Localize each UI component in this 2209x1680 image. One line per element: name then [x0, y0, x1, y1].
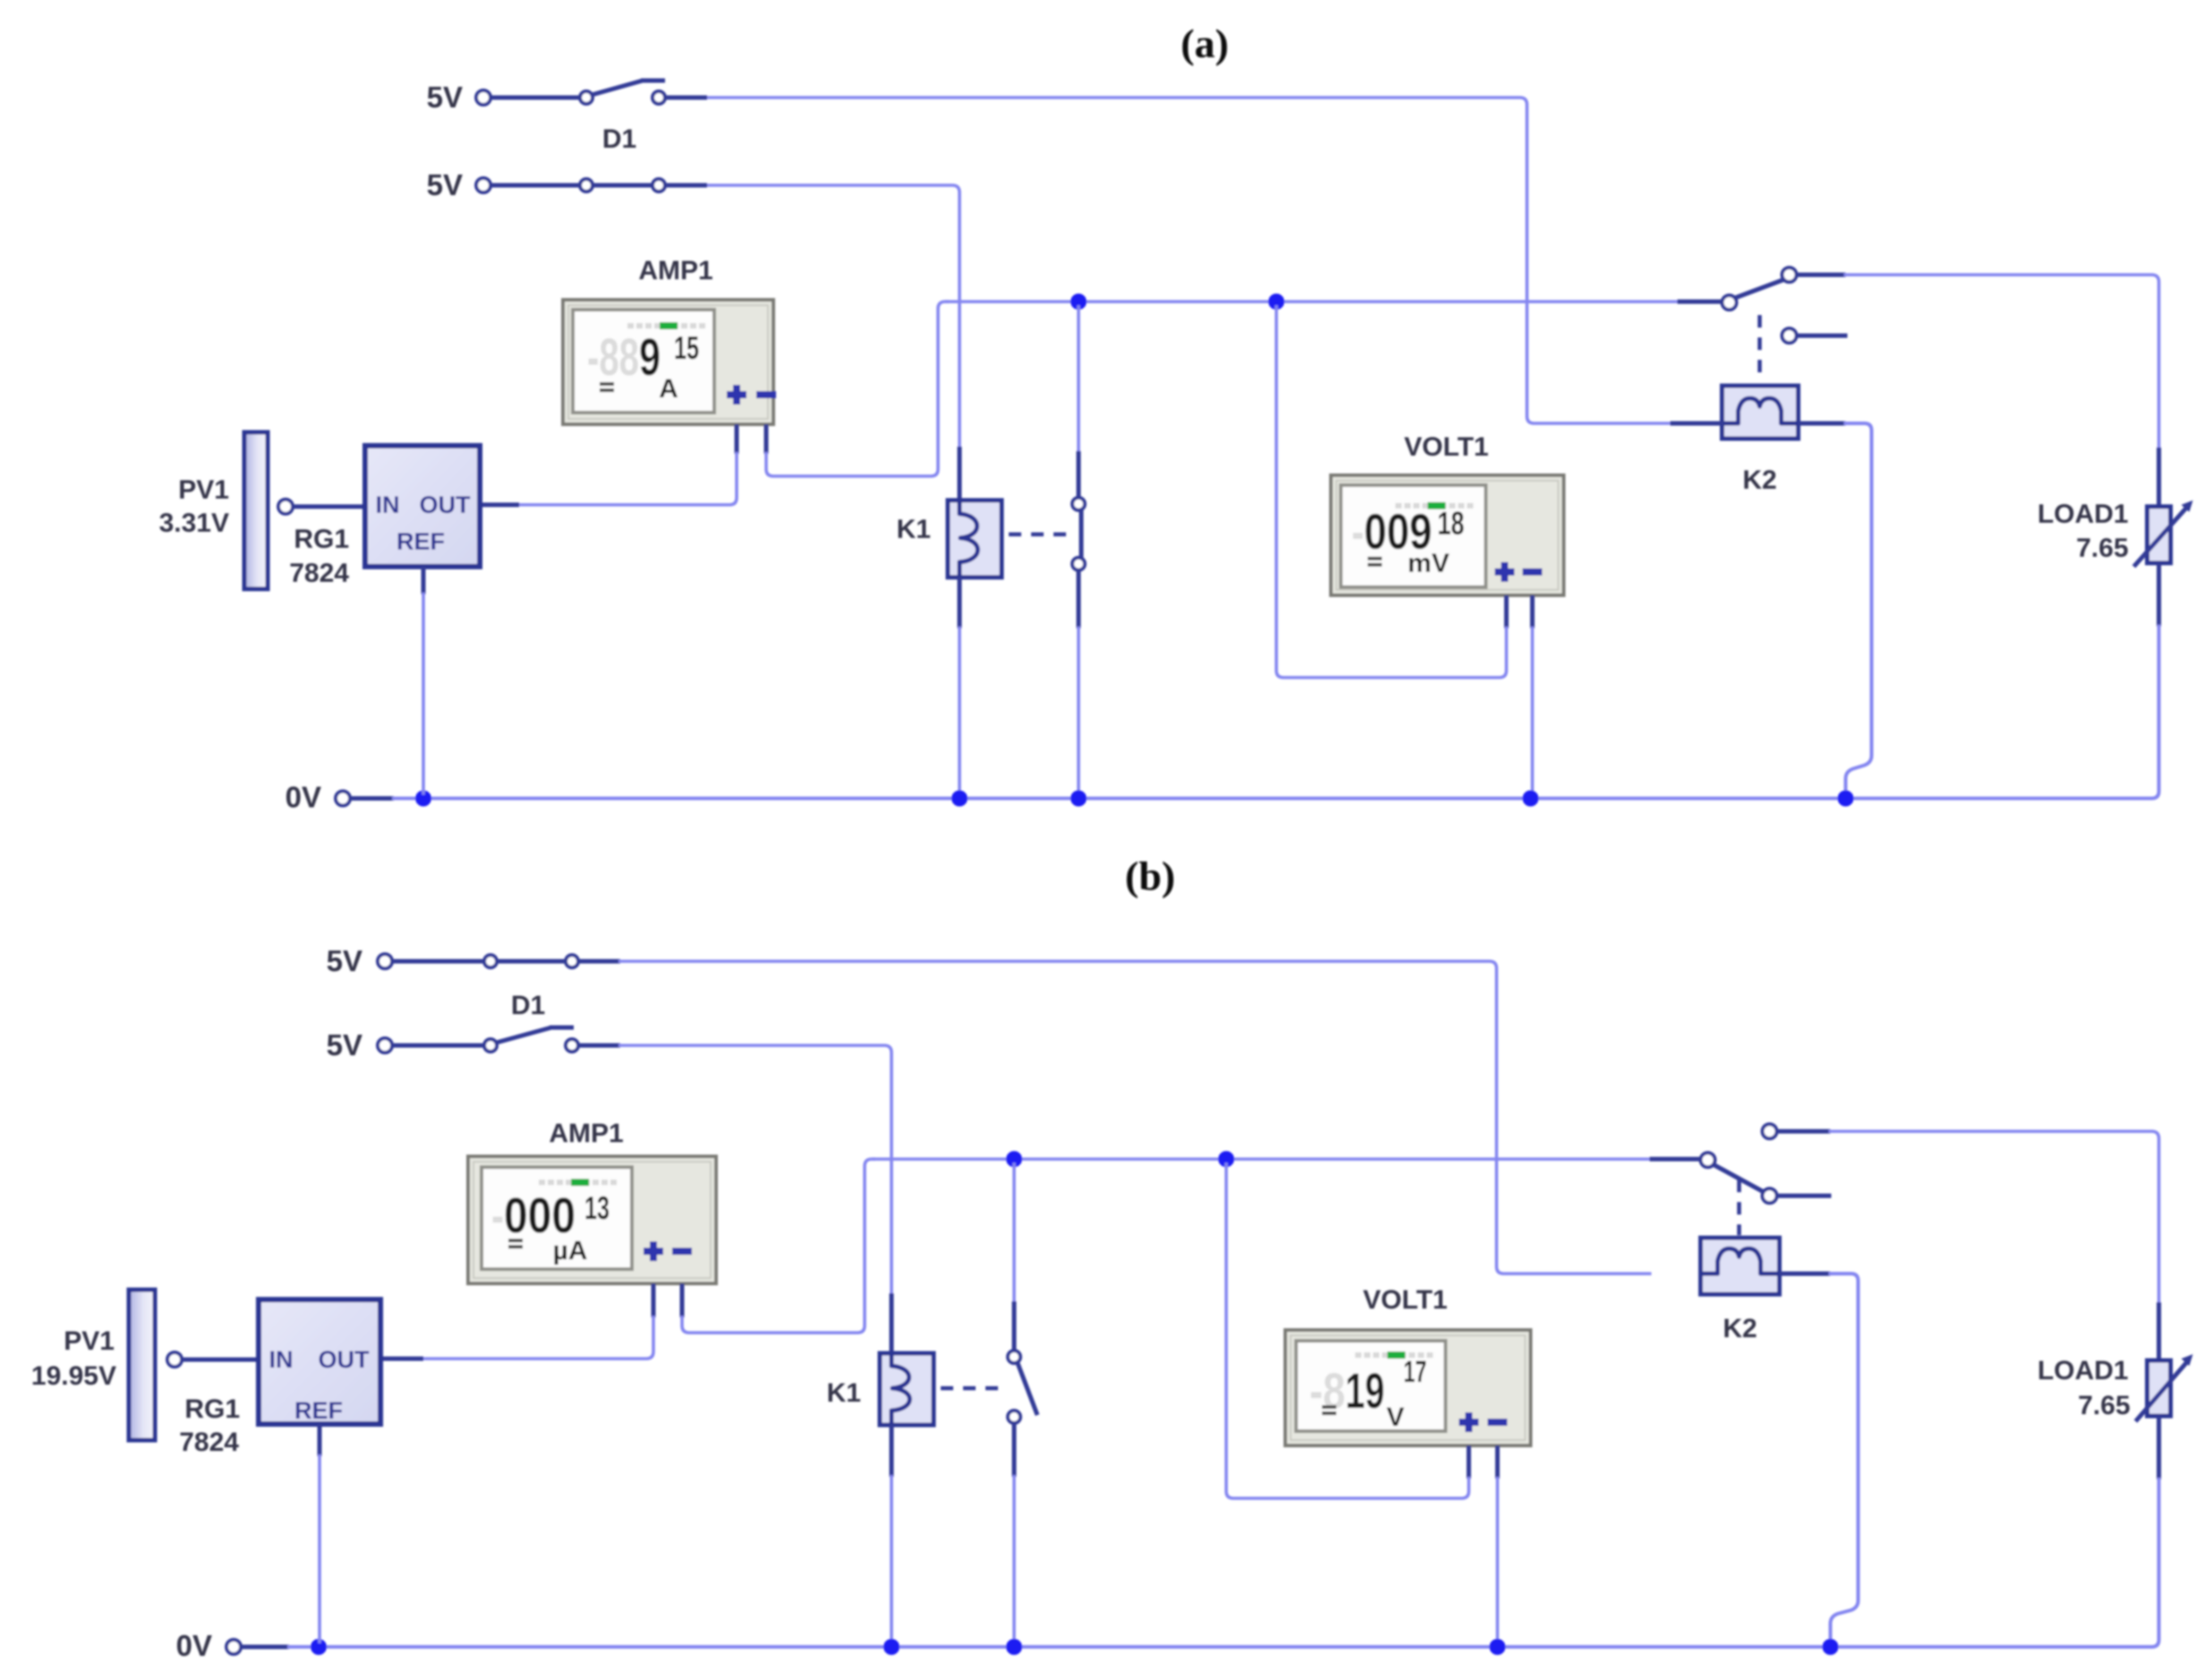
wire 5V terminal to D1 pole (a, row 2) [490, 183, 580, 188]
label K2 (b) [1723, 1314, 1757, 1343]
terminal 0V (b) [226, 1640, 241, 1654]
svg-text:mV: mV [1408, 549, 1450, 578]
svg-text:REF: REF [294, 1397, 343, 1424]
pin 0V terminal stub (a) [350, 797, 394, 801]
relay contact K2 pole (b) [1701, 1153, 1764, 1192]
wire VOLT1 plus to node (b) [1226, 1163, 1469, 1498]
label D1 (b) [511, 991, 545, 1020]
svg-text:IN: IN [269, 1346, 294, 1373]
label K1 (b) [827, 1378, 861, 1408]
wire K2 coil return to 0V rail (b) [1779, 1274, 1858, 1643]
net label 5V (a, row 1) [427, 81, 463, 114]
label RG1 (b) [184, 1394, 240, 1424]
wire D1 row1 to K2 coil (a) [665, 98, 1672, 423]
regulator RG1 (b) [259, 1300, 380, 1424]
svg-text:-819: -819 [1309, 1362, 1385, 1419]
svg-text:VOLT1: VOLT1 [1404, 432, 1488, 462]
net label 5V (b, row 1) [327, 944, 362, 977]
terminal PV1 output (b) [167, 1352, 182, 1367]
svg-text:7.65: 7.65 [2078, 1391, 2130, 1420]
junction 0V-K1contact (b) [1006, 1639, 1022, 1655]
svg-text:K2: K2 [1723, 1314, 1757, 1343]
relay coil K2 (b) [1701, 1238, 1779, 1294]
node wire (b) K1/VOLT1/K2 row [872, 1157, 1701, 1161]
svg-text:7824: 7824 [289, 559, 349, 588]
dashed actuator link K1 (a) [1009, 533, 1072, 537]
switch D1 contact 2 (a, closed) [580, 179, 665, 192]
svg-text:K1: K1 [897, 515, 931, 544]
wire RG1 REF to 0V rail (b) [318, 1424, 322, 1643]
svg-text:5V: 5V [327, 944, 362, 977]
0V rail wire (b) [287, 1478, 2159, 1647]
ammeter AMP1 (a) [563, 300, 776, 424]
junction node B1 (b, K1 contact top) [1006, 1151, 1022, 1167]
svg-text:3.31V: 3.31V [159, 508, 229, 538]
net label 5V (a, row 2) [427, 168, 463, 201]
pin K2 coil left (a) [1670, 422, 1724, 426]
svg-text:0V: 0V [286, 780, 321, 814]
svg-text:REF: REF [397, 528, 445, 555]
svg-text:17: 17 [1403, 1355, 1427, 1389]
relay coil K1 (b) [880, 1353, 934, 1425]
switch D1 contact 1 (b, closed) [484, 955, 578, 968]
label LOAD1 (a) [2037, 499, 2128, 529]
0V rail wire (a) [392, 625, 2159, 798]
svg-text:V: V [1386, 1403, 1404, 1432]
wire D1 row1 to K2 coil (b) [578, 961, 1651, 1274]
terminal 5V (a, row 1) [476, 90, 490, 105]
relay contact K2 pole (a) [1722, 279, 1785, 310]
pv panel PV1 (a) [244, 432, 268, 589]
junction 0V-VOLT1 (a) [1522, 790, 1539, 806]
wire PV1 to RG1 IN (a) [293, 505, 367, 509]
svg-text:7.65: 7.65 [2077, 533, 2128, 563]
caption (a) [1181, 21, 1229, 66]
switch D1 contact 1 (a, open) [580, 81, 665, 104]
relay coil K2 (a) [1722, 386, 1798, 439]
svg-text:K2: K2 [1743, 465, 1777, 495]
wire AMP1 minus to node (a) [766, 302, 949, 476]
dashed actuator link K2 (b) [1737, 1180, 1742, 1235]
wire VOLT1 plus to node (a) [1276, 305, 1506, 678]
svg-text:D1: D1 [511, 991, 545, 1020]
wire 5V terminal to D1 pole (b, row 1) [392, 959, 484, 964]
svg-text:15: 15 [674, 329, 699, 366]
junction 0V-K1coil (b) [883, 1639, 900, 1655]
relay contact K2 throw NO (a) [1782, 268, 1846, 282]
junction 0V-REF (b) [311, 1639, 327, 1655]
svg-text:AMP1: AMP1 [549, 1119, 623, 1148]
junction node A2 (a, VOLT1 plus top) [1268, 294, 1284, 310]
label PV1 (a) [178, 475, 229, 505]
value 7.65 (b) [2078, 1391, 2130, 1420]
label PV1 (b) [64, 1326, 115, 1356]
svg-text:RG1: RG1 [294, 524, 349, 554]
terminal 0V (a) [336, 791, 350, 806]
rheostat LOAD1 (a) [2134, 448, 2193, 627]
regulator RG1 (a) [365, 446, 480, 567]
wire D1 row2 to K1 coil (a) [665, 185, 960, 500]
switch D1 contact 2 (b, open) [484, 1028, 578, 1052]
wire RG1 REF to 0V rail (a) [422, 567, 426, 795]
junction 0V-K2coil (a) [1838, 790, 1854, 806]
svg-text:D1: D1 [602, 124, 636, 154]
relay contact K2 throw NC stub (b) [1762, 1189, 1831, 1203]
label AMP1 (b) [549, 1119, 623, 1148]
svg-text:5V: 5V [427, 168, 463, 201]
voltmeter VOLT1 (b) [1285, 1330, 1531, 1445]
value 19.95V (b) [31, 1361, 116, 1391]
junction 0V-VOLT1 (b) [1489, 1639, 1505, 1655]
svg-text:OUT: OUT [319, 1346, 371, 1373]
wire 5V terminal to D1 pole (b, row 2) [392, 1044, 484, 1048]
label AMP1 (a) [638, 256, 712, 286]
junction 0V-K1coil (a) [951, 790, 968, 806]
svg-text:-889: -889 [587, 328, 661, 387]
svg-text:µA: µA [553, 1236, 588, 1266]
terminal 5V (a, row 2) [476, 178, 490, 192]
svg-text:AMP1: AMP1 [638, 256, 712, 286]
pin 0V terminal stub (b) [241, 1645, 289, 1650]
svg-text:0V: 0V [176, 1629, 212, 1662]
wire AMP1 plus to RG1 OUT (b) [379, 1283, 653, 1359]
svg-text:5V: 5V [427, 81, 463, 114]
label K1 (a) [897, 515, 931, 544]
wire AMP1 minus to node (b) [682, 1159, 875, 1333]
node wire (a) K1/VOLT1/K2 row [945, 300, 1722, 303]
label K2 (a) [1743, 465, 1777, 495]
svg-text:(b): (b) [1125, 853, 1175, 899]
svg-text:VOLT1: VOLT1 [1363, 1285, 1447, 1315]
svg-text:OUT: OUT [420, 491, 472, 518]
wire VOLT1 minus to 0V rail (a) [1531, 595, 1535, 795]
wire K1 coil to 0V rail (b) [890, 1425, 894, 1643]
svg-text:(a): (a) [1181, 21, 1229, 66]
terminal 5V (b, row 2) [378, 1038, 392, 1053]
junction 0V-REF (a) [415, 790, 431, 806]
svg-text:PV1: PV1 [64, 1326, 115, 1356]
pv panel PV1 (b) [129, 1290, 155, 1440]
wire K2 coil return to 0V rail (a) [1798, 423, 1872, 795]
wire AMP1 plus to RG1 OUT (a) [478, 424, 737, 505]
wire PV1 to RG1 IN (b) [182, 1358, 260, 1362]
svg-text:PV1: PV1 [178, 475, 229, 505]
junction node B2 (b, VOLT1 plus top) [1218, 1151, 1234, 1167]
net label 0V (a) [286, 780, 321, 814]
net label 0V (b) [176, 1629, 212, 1662]
label LOAD1 (b) [2037, 1356, 2128, 1386]
value 7.65 (a) [2077, 533, 2128, 563]
svg-text:RG1: RG1 [184, 1394, 240, 1424]
svg-text:LOAD1: LOAD1 [2037, 499, 2128, 529]
wire 5V terminal to D1 pole (a, row 1) [490, 96, 580, 100]
wire VOLT1 minus to 0V rail (b) [1496, 1445, 1500, 1643]
terminal PV1 output (a) [278, 499, 293, 514]
svg-text:5V: 5V [327, 1028, 362, 1062]
label VOLT1 (b) [1363, 1285, 1447, 1315]
value 7824 (a) [289, 559, 349, 588]
svg-text:LOAD1: LOAD1 [2037, 1356, 2128, 1386]
wire K1 coil to 0V rail (a) [958, 577, 962, 795]
wire D1 row2 to K1 coil (b) [578, 1045, 891, 1353]
terminal 5V (b, row 1) [378, 954, 392, 968]
wire K2 NO to LOAD1 (b) [1829, 1131, 2159, 1305]
value 7824 (b) [179, 1428, 239, 1457]
svg-text:K1: K1 [827, 1378, 861, 1408]
voltmeter VOLT1 (a) [1331, 475, 1564, 595]
junction 0V-K2coil (b) [1822, 1639, 1838, 1655]
relay contact K2 throw NO (b) [1762, 1124, 1830, 1138]
value 3.31V (a) [159, 508, 229, 538]
net label 5V (b, row 2) [327, 1028, 362, 1062]
caption (b) [1125, 853, 1175, 899]
wire K2 NO to LOAD1 (a) [1844, 275, 2159, 449]
svg-text:IN: IN [376, 491, 400, 518]
junction 0V-K1contact (a) [1070, 790, 1087, 806]
svg-text:19.95V: 19.95V [31, 1361, 116, 1391]
junction node A1 (a, K1 contact top) [1070, 294, 1087, 310]
svg-text:7824: 7824 [179, 1428, 239, 1457]
relay contact K2 throw NC stub (a) [1782, 328, 1847, 343]
svg-text:13: 13 [584, 1190, 610, 1226]
dashed actuator link K2 (a) [1758, 315, 1762, 381]
ammeter AMP1 (b) [468, 1156, 716, 1283]
label VOLT1 (a) [1404, 432, 1488, 462]
relay contact K1 (a, closed) [1072, 305, 1085, 795]
label RG1 (a) [294, 524, 349, 554]
svg-text:18: 18 [1437, 505, 1464, 542]
dashed actuator link K1 (b) [941, 1386, 1004, 1391]
relay contact K1 (b, open) [1008, 1163, 1037, 1643]
rheostat LOAD1 (b) [2136, 1302, 2193, 1480]
svg-text:-000: -000 [491, 1187, 576, 1243]
label D1 (a) [602, 124, 636, 154]
relay coil K1 (a) [948, 500, 1002, 577]
svg-text:A: A [659, 374, 678, 404]
